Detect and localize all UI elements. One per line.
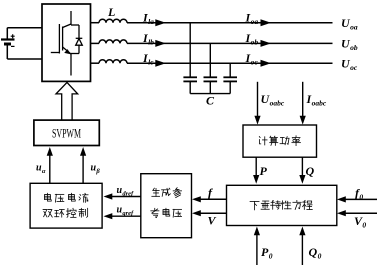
- inverter bridge box: [42, 4, 91, 81]
- svg-text:f0: f0: [355, 186, 363, 202]
- svg-text:f: f: [208, 186, 213, 200]
- svg-text:Uoa: Uoa: [341, 16, 358, 32]
- hollow arrow SVPWM to inverter: [56, 82, 78, 120]
- arrow I_oc: [261, 60, 272, 67]
- block SVPWM: [34, 120, 99, 145]
- wire phase A out: [127, 22, 333, 24]
- inductor L phase B: [99, 40, 127, 44]
- wire V: [199, 212, 227, 214]
- svg-text:Ioc: Ioc: [245, 51, 259, 67]
- wire f_0: [344, 198, 377, 200]
- wire V_0: [344, 212, 377, 214]
- svg-text:Ilb: Ilb: [142, 31, 154, 47]
- svg-text:SVPWM: SVPWM: [52, 126, 81, 141]
- wire Q_0: [301, 234, 303, 265]
- IGBT emitter arrowhead: [64, 49, 70, 54]
- block droop-equation 下垂特性方程: [227, 185, 337, 225]
- capacitor Cc: [223, 63, 237, 93]
- wire capacitor bus: [190, 93, 230, 95]
- wire u_alpha: [49, 154, 51, 183]
- wire I_oabc sense: [302, 82, 304, 118]
- block calculate-power 计算功率: [243, 125, 317, 157]
- wire phase C: [91, 62, 100, 64]
- svg-text:udref: udref: [117, 185, 135, 198]
- diode D1: [76, 25, 83, 54]
- arrow U_oabc: [254, 116, 260, 125]
- text 下垂特性方程: [250, 200, 312, 209]
- wire battery bottom: [7, 58, 42, 60]
- block dual-loop-control 电压电流双环控制: [30, 183, 102, 228]
- wire phase A: [91, 22, 100, 24]
- text 电压电流: [45, 193, 89, 202]
- svg-text:Ioa: Ioa: [245, 11, 259, 27]
- svg-text:Ila: Ila: [142, 11, 154, 27]
- wire Q: [301, 157, 303, 177]
- svg-text:Ioabc: Ioabc: [306, 92, 327, 108]
- arrow I_lc: [155, 60, 166, 67]
- arrow I_oabc: [300, 116, 306, 125]
- svg-text:P: P: [260, 164, 268, 178]
- arrow u_alpha: [47, 147, 53, 156]
- text 计算功率: [259, 136, 300, 146]
- wire f: [199, 198, 227, 200]
- wire phase B out: [127, 42, 333, 44]
- svg-text:Ilc: Ilc: [142, 51, 154, 67]
- wire U_oabc sense: [257, 82, 259, 118]
- arrow I_oa: [261, 19, 272, 26]
- svg-text:Q: Q: [306, 164, 315, 178]
- text 生成参: [152, 188, 182, 198]
- wire phase B: [91, 42, 100, 44]
- IGBT Q1: [51, 11, 79, 76]
- arrow u_dref: [104, 193, 113, 199]
- svg-text:uα: uα: [36, 163, 46, 176]
- arrow P: [253, 175, 259, 184]
- arrow Q_0: [299, 227, 305, 236]
- svg-text:Iob: Iob: [245, 31, 259, 47]
- arrow V: [192, 210, 201, 216]
- arrow f_0: [337, 196, 346, 202]
- svg-text:V: V: [208, 214, 217, 228]
- text 双环控制: [43, 208, 88, 217]
- block reference-voltage 生成参考电压: [141, 174, 192, 238]
- wire P: [255, 157, 257, 177]
- svg-text:Uob: Uob: [341, 37, 358, 53]
- arrow I_la: [155, 19, 166, 26]
- inductor L phase C: [99, 60, 127, 63]
- arrow u_beta: [80, 147, 86, 156]
- capacitor Cb: [204, 43, 218, 93]
- svg-text:uβ: uβ: [91, 163, 101, 176]
- svg-text:Uoc: Uoc: [341, 57, 358, 73]
- wire battery top: [7, 27, 42, 29]
- svg-text:Q0: Q0: [309, 245, 322, 261]
- svg-text:C: C: [206, 94, 215, 108]
- arrow P_0: [254, 227, 260, 236]
- capacitor Ca: [183, 23, 197, 94]
- svg-text:V0: V0: [354, 214, 366, 230]
- wire u_dref: [111, 196, 141, 198]
- arrow I_ob: [261, 40, 272, 47]
- wire phase C out: [127, 62, 333, 64]
- wire u_beta: [82, 154, 84, 183]
- arrow u_qref: [104, 213, 113, 219]
- svg-text:L: L: [107, 5, 115, 19]
- wire P_0: [256, 234, 258, 265]
- text 考电压: [151, 208, 182, 217]
- wire u_qref: [111, 215, 141, 217]
- arrow f: [192, 196, 201, 202]
- svg-text:Uoabc: Uoabc: [261, 92, 285, 108]
- svg-text:uqref: uqref: [117, 205, 135, 218]
- svg-text:P0: P0: [261, 245, 273, 261]
- arrow I_lb: [155, 40, 166, 47]
- inductor L phase A: [99, 19, 127, 22]
- battery DC source: [1, 28, 15, 59]
- arrow V_0: [337, 210, 346, 216]
- arrow Q: [299, 175, 305, 184]
